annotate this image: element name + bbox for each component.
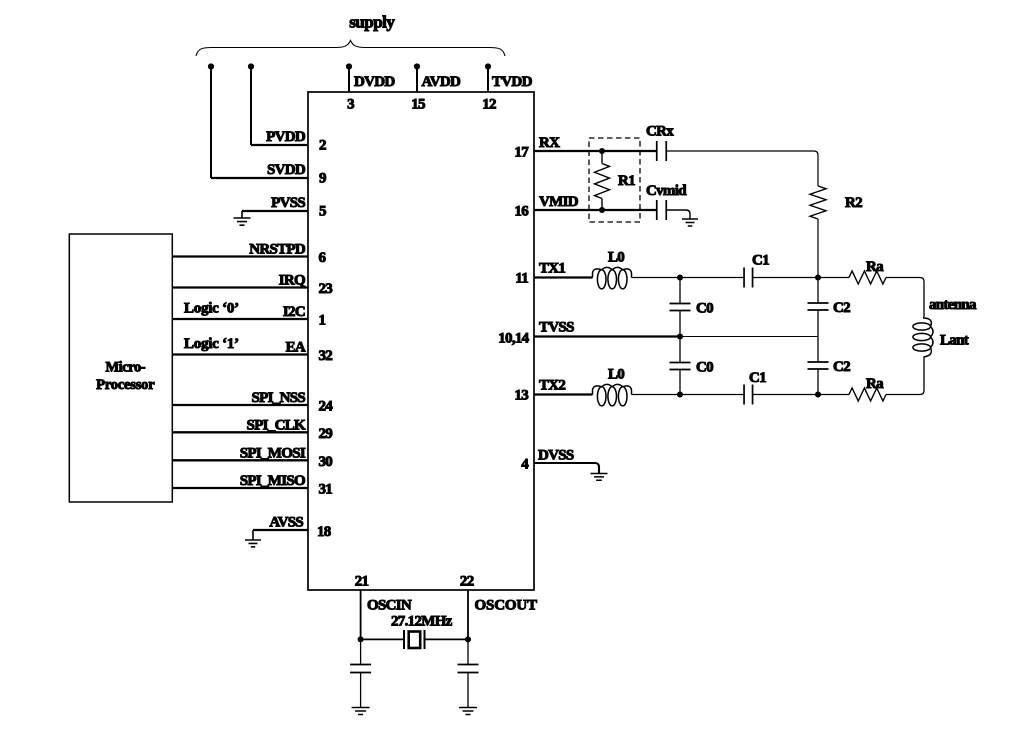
svg-text:23: 23 bbox=[319, 281, 333, 297]
capacitor crystal left bbox=[350, 639, 371, 707]
svg-text:SVDD: SVDD bbox=[267, 162, 306, 178]
inductor Lant antenna coil bbox=[913, 317, 933, 357]
svg-text:18: 18 bbox=[317, 524, 331, 540]
crystal X1 27.12MHz bbox=[404, 630, 425, 649]
OSCIN label bbox=[367, 598, 412, 614]
wire DVSS pin 4 bbox=[534, 463, 599, 474]
svg-text:5: 5 bbox=[319, 204, 326, 220]
pin 16 number bbox=[514, 204, 529, 220]
svg-text:1: 1 bbox=[319, 313, 326, 329]
TX2 label bbox=[539, 378, 565, 394]
PVDD label bbox=[266, 129, 306, 145]
inductor L0 lower bbox=[593, 384, 632, 406]
svg-text:10,14: 10,14 bbox=[498, 331, 529, 347]
pin 15 number bbox=[411, 97, 425, 113]
svg-text:TVDD: TVDD bbox=[492, 74, 533, 90]
RX label bbox=[539, 135, 560, 151]
wire PVSS bbox=[242, 211, 308, 218]
svg-text:IRQ: IRQ bbox=[279, 273, 306, 289]
node TX1-C0 junction bbox=[677, 274, 683, 280]
svg-text:C0: C0 bbox=[696, 301, 713, 317]
node TX1 R2 junction bbox=[815, 274, 821, 280]
svg-text:6: 6 bbox=[319, 250, 327, 266]
supply node DVDD pin 3 stub bbox=[346, 63, 352, 92]
capacitor CRx bbox=[657, 141, 667, 161]
resistor Ra lower bbox=[849, 388, 886, 401]
DVSS label bbox=[538, 448, 574, 464]
svg-text:antenna: antenna bbox=[929, 297, 977, 313]
svg-text:15: 15 bbox=[411, 97, 425, 113]
wire NRSTPD bbox=[172, 255, 308, 257]
OSCOUT label bbox=[475, 598, 538, 614]
svg-text:supply: supply bbox=[349, 13, 395, 32]
pin 10,14 number bbox=[498, 331, 529, 347]
svg-text:SPI_MOSI: SPI_MOSI bbox=[240, 445, 306, 461]
pin 1 number bbox=[319, 313, 326, 329]
Logic '0' label bbox=[184, 301, 239, 317]
svg-text:Lant: Lant bbox=[940, 333, 969, 349]
node TX2-C0 junction bbox=[677, 391, 683, 397]
svg-text:SPI_NSS: SPI_NSS bbox=[252, 390, 306, 406]
pin 31 number bbox=[319, 482, 333, 498]
svg-text:13: 13 bbox=[514, 388, 528, 404]
pin 17 number bbox=[514, 145, 529, 161]
L0 upper label bbox=[608, 250, 624, 266]
pin 12 number bbox=[482, 97, 496, 113]
node RX junction bbox=[599, 148, 605, 154]
pin 5 number bbox=[319, 204, 326, 220]
VMID label bbox=[539, 194, 579, 210]
svg-text:3: 3 bbox=[347, 97, 354, 113]
SPI_NSS label bbox=[252, 390, 306, 406]
SVDD label bbox=[267, 162, 306, 178]
svg-text:Logic ‘1’: Logic ‘1’ bbox=[184, 336, 239, 352]
micro-processor box U2 bbox=[69, 234, 172, 502]
svg-text:R1: R1 bbox=[618, 173, 635, 189]
wire C1 to TX1 node2 bbox=[753, 277, 819, 279]
supply label bbox=[349, 13, 395, 32]
pin 22 number bbox=[460, 574, 474, 590]
capacitor crystal right bbox=[458, 639, 479, 707]
svg-text:EA: EA bbox=[286, 340, 306, 356]
svg-text:AVDD: AVDD bbox=[422, 74, 461, 90]
node OSCIN junction bbox=[358, 636, 364, 642]
svg-text:30: 30 bbox=[319, 454, 333, 470]
NRSTPD label bbox=[249, 242, 306, 258]
C0 lower label bbox=[696, 360, 713, 376]
supply brace bbox=[196, 41, 505, 57]
C2 lower label bbox=[833, 359, 850, 375]
svg-text:C1: C1 bbox=[749, 370, 766, 386]
wire VMID pin 16 bbox=[534, 209, 657, 211]
svg-text:CRx: CRx bbox=[646, 124, 674, 140]
resistor R1 bbox=[595, 164, 610, 199]
svg-text:I2C: I2C bbox=[283, 304, 305, 320]
pin 11 number bbox=[515, 271, 528, 287]
wire R1 bottom stub bbox=[601, 199, 603, 211]
node TVSS-C0 junction bbox=[677, 333, 683, 339]
chip IC body bbox=[308, 92, 534, 590]
I2C label bbox=[283, 304, 305, 320]
svg-text:DVDD: DVDD bbox=[354, 74, 395, 90]
wire PVDD bbox=[251, 144, 308, 146]
wire SPI_MOSI bbox=[172, 459, 308, 461]
wire Ra to antenna bottom bbox=[886, 357, 924, 395]
AVDD label bbox=[422, 74, 461, 90]
svg-text:22: 22 bbox=[460, 574, 474, 590]
svg-text:32: 32 bbox=[319, 348, 333, 364]
pin 24 number bbox=[319, 399, 334, 415]
svg-text:TX1: TX1 bbox=[539, 261, 565, 277]
supply node PVDD rail bbox=[248, 63, 254, 145]
wire AVSS bbox=[253, 530, 308, 540]
SPI_CLK label bbox=[247, 417, 306, 433]
ground DVSS bbox=[591, 474, 608, 481]
capacitor C1 lower bbox=[744, 385, 753, 405]
node OSCOUT junction bbox=[465, 636, 471, 642]
svg-text:Ra: Ra bbox=[866, 376, 884, 392]
wire R2 to TX1 node bbox=[817, 219, 819, 278]
svg-text:11: 11 bbox=[515, 271, 528, 287]
wire SVDD bbox=[211, 177, 308, 179]
wire L0 to C1 bbox=[632, 277, 745, 279]
supply node TVDD pin 12 stub bbox=[485, 63, 491, 92]
wire EA bbox=[172, 353, 308, 355]
svg-text:SPI_CLK: SPI_CLK bbox=[247, 417, 306, 433]
pin 2 number bbox=[319, 138, 326, 154]
svg-text:C2: C2 bbox=[833, 359, 850, 375]
node VMID junction bbox=[599, 207, 605, 213]
AVSS label bbox=[269, 515, 303, 531]
SPI_MISO label bbox=[240, 473, 305, 489]
svg-text:NRSTPD: NRSTPD bbox=[249, 242, 306, 258]
PVSS label bbox=[271, 195, 305, 211]
wire TX2 to Ra lower bbox=[818, 394, 849, 396]
TX1 label bbox=[539, 261, 565, 277]
L0 lower label bbox=[608, 367, 624, 383]
svg-text:4: 4 bbox=[521, 457, 529, 473]
Ra upper label bbox=[866, 259, 884, 275]
svg-text:24: 24 bbox=[319, 399, 334, 415]
wire SPI_MISO bbox=[172, 487, 308, 489]
wire L0 to C1 lower bbox=[632, 394, 745, 396]
svg-text:TX2: TX2 bbox=[539, 378, 565, 394]
pin 29 number bbox=[319, 426, 333, 442]
capacitor C0 lower bbox=[670, 337, 691, 395]
svg-text:2: 2 bbox=[319, 138, 326, 154]
pin 3 number bbox=[347, 97, 354, 113]
svg-text:PVDD: PVDD bbox=[266, 129, 306, 145]
svg-text:L0: L0 bbox=[608, 250, 624, 266]
resistor Ra upper bbox=[849, 271, 886, 284]
SPI_MOSI label bbox=[240, 445, 306, 461]
pin 18 number bbox=[317, 524, 331, 540]
svg-text:SPI_MISO: SPI_MISO bbox=[240, 473, 305, 489]
wire crystal left bbox=[361, 638, 404, 640]
pin 21 number bbox=[355, 574, 369, 590]
wire TX2 pin 13 bbox=[534, 393, 593, 395]
wire I2C bbox=[172, 318, 308, 320]
TVDD label bbox=[492, 74, 533, 90]
svg-text:Micro-: Micro- bbox=[105, 360, 145, 376]
wire Cvmid to ground bbox=[666, 210, 690, 219]
dashed box around R1 bbox=[589, 138, 640, 222]
R2 label bbox=[845, 195, 862, 211]
inductor L0 upper bbox=[593, 267, 632, 289]
capacitor C1 upper bbox=[744, 268, 753, 288]
micro-processor label bbox=[96, 360, 155, 394]
svg-text:OSCIN: OSCIN bbox=[367, 598, 412, 614]
svg-text:17: 17 bbox=[514, 145, 529, 161]
antenna label bbox=[929, 297, 977, 313]
resistor R2 bbox=[810, 186, 826, 219]
wire crystal right bbox=[425, 638, 469, 640]
wire TVSS pins 10,14 bbox=[534, 335, 818, 337]
pin 23 number bbox=[319, 281, 333, 297]
svg-text:R2: R2 bbox=[845, 195, 862, 211]
svg-text:9: 9 bbox=[319, 171, 326, 187]
svg-text:Cvmid: Cvmid bbox=[646, 183, 687, 199]
capacitor C0 upper bbox=[670, 278, 691, 337]
svg-text:16: 16 bbox=[514, 204, 529, 220]
svg-text:C1: C1 bbox=[752, 253, 769, 269]
wire SPI_NSS bbox=[172, 404, 308, 406]
C2 upper label bbox=[833, 300, 850, 316]
Cvmid label bbox=[646, 183, 687, 199]
svg-text:PVSS: PVSS bbox=[271, 195, 305, 211]
wire TX1 to Ra bbox=[818, 277, 849, 279]
TVSS label bbox=[539, 320, 574, 336]
svg-text:Ra: Ra bbox=[866, 259, 884, 275]
capacitor C2 upper bbox=[808, 278, 829, 337]
pin 30 number bbox=[319, 454, 333, 470]
wire Ra to antenna top bbox=[886, 278, 924, 318]
svg-text:Processor: Processor bbox=[96, 377, 155, 393]
C1 lower label bbox=[749, 370, 766, 386]
svg-text:AVSS: AVSS bbox=[269, 515, 303, 531]
pin 9 number bbox=[319, 171, 326, 187]
C1 upper label bbox=[752, 253, 769, 269]
svg-text:27.12MHz: 27.12MHz bbox=[391, 614, 453, 630]
wire TX1 pin 11 bbox=[534, 276, 593, 278]
R1 label bbox=[618, 173, 635, 189]
CRx label bbox=[646, 124, 674, 140]
wire OSCOUT pin 22 bbox=[467, 590, 469, 639]
ground crystal left bbox=[352, 708, 370, 715]
svg-text:L0: L0 bbox=[608, 367, 624, 383]
27.12MHz label bbox=[391, 614, 453, 630]
svg-text:29: 29 bbox=[319, 426, 333, 442]
svg-text:TVSS: TVSS bbox=[539, 320, 574, 336]
svg-text:RX: RX bbox=[539, 135, 560, 151]
Ra lower label bbox=[866, 376, 884, 392]
svg-text:C0: C0 bbox=[696, 360, 713, 376]
ground Cvmid bbox=[682, 219, 698, 226]
svg-text:C2: C2 bbox=[833, 300, 850, 316]
EA label bbox=[286, 340, 306, 356]
supply node AVDD pin 15 stub bbox=[414, 63, 420, 92]
ground PVSS bbox=[234, 218, 251, 225]
wire OSCIN pin 21 bbox=[360, 590, 362, 639]
node TX2 C2 junction bbox=[815, 391, 821, 397]
wire R1 top stub bbox=[601, 151, 603, 164]
wire RX pin 17 bbox=[534, 150, 657, 152]
wire IRQ bbox=[172, 286, 308, 288]
svg-text:VMID: VMID bbox=[539, 194, 579, 210]
svg-text:31: 31 bbox=[319, 482, 333, 498]
pin 32 number bbox=[319, 348, 333, 364]
pin 4 number bbox=[521, 457, 529, 473]
svg-text:21: 21 bbox=[355, 574, 369, 590]
supply node SVDD rail bbox=[208, 63, 214, 178]
wire C1 to TX2 node2 bbox=[753, 394, 819, 396]
Lant label bbox=[940, 333, 969, 349]
capacitor Cvmid bbox=[657, 200, 667, 220]
ground AVSS bbox=[245, 540, 261, 547]
capacitor C2 lower bbox=[808, 337, 829, 395]
svg-text:12: 12 bbox=[482, 97, 496, 113]
C0 upper label bbox=[696, 301, 713, 317]
svg-text:Logic ‘0’: Logic ‘0’ bbox=[184, 301, 239, 317]
wire SPI_CLK bbox=[172, 431, 308, 433]
pin 6 number bbox=[319, 250, 327, 266]
DVDD label bbox=[354, 74, 395, 90]
pin 13 number bbox=[514, 388, 528, 404]
svg-text:DVSS: DVSS bbox=[538, 448, 574, 464]
wire RX to R2 bbox=[666, 151, 818, 186]
IRQ label bbox=[279, 273, 306, 289]
svg-text:OSCOUT: OSCOUT bbox=[475, 598, 538, 614]
Logic '1' label bbox=[184, 336, 239, 352]
ground crystal right bbox=[459, 708, 477, 715]
